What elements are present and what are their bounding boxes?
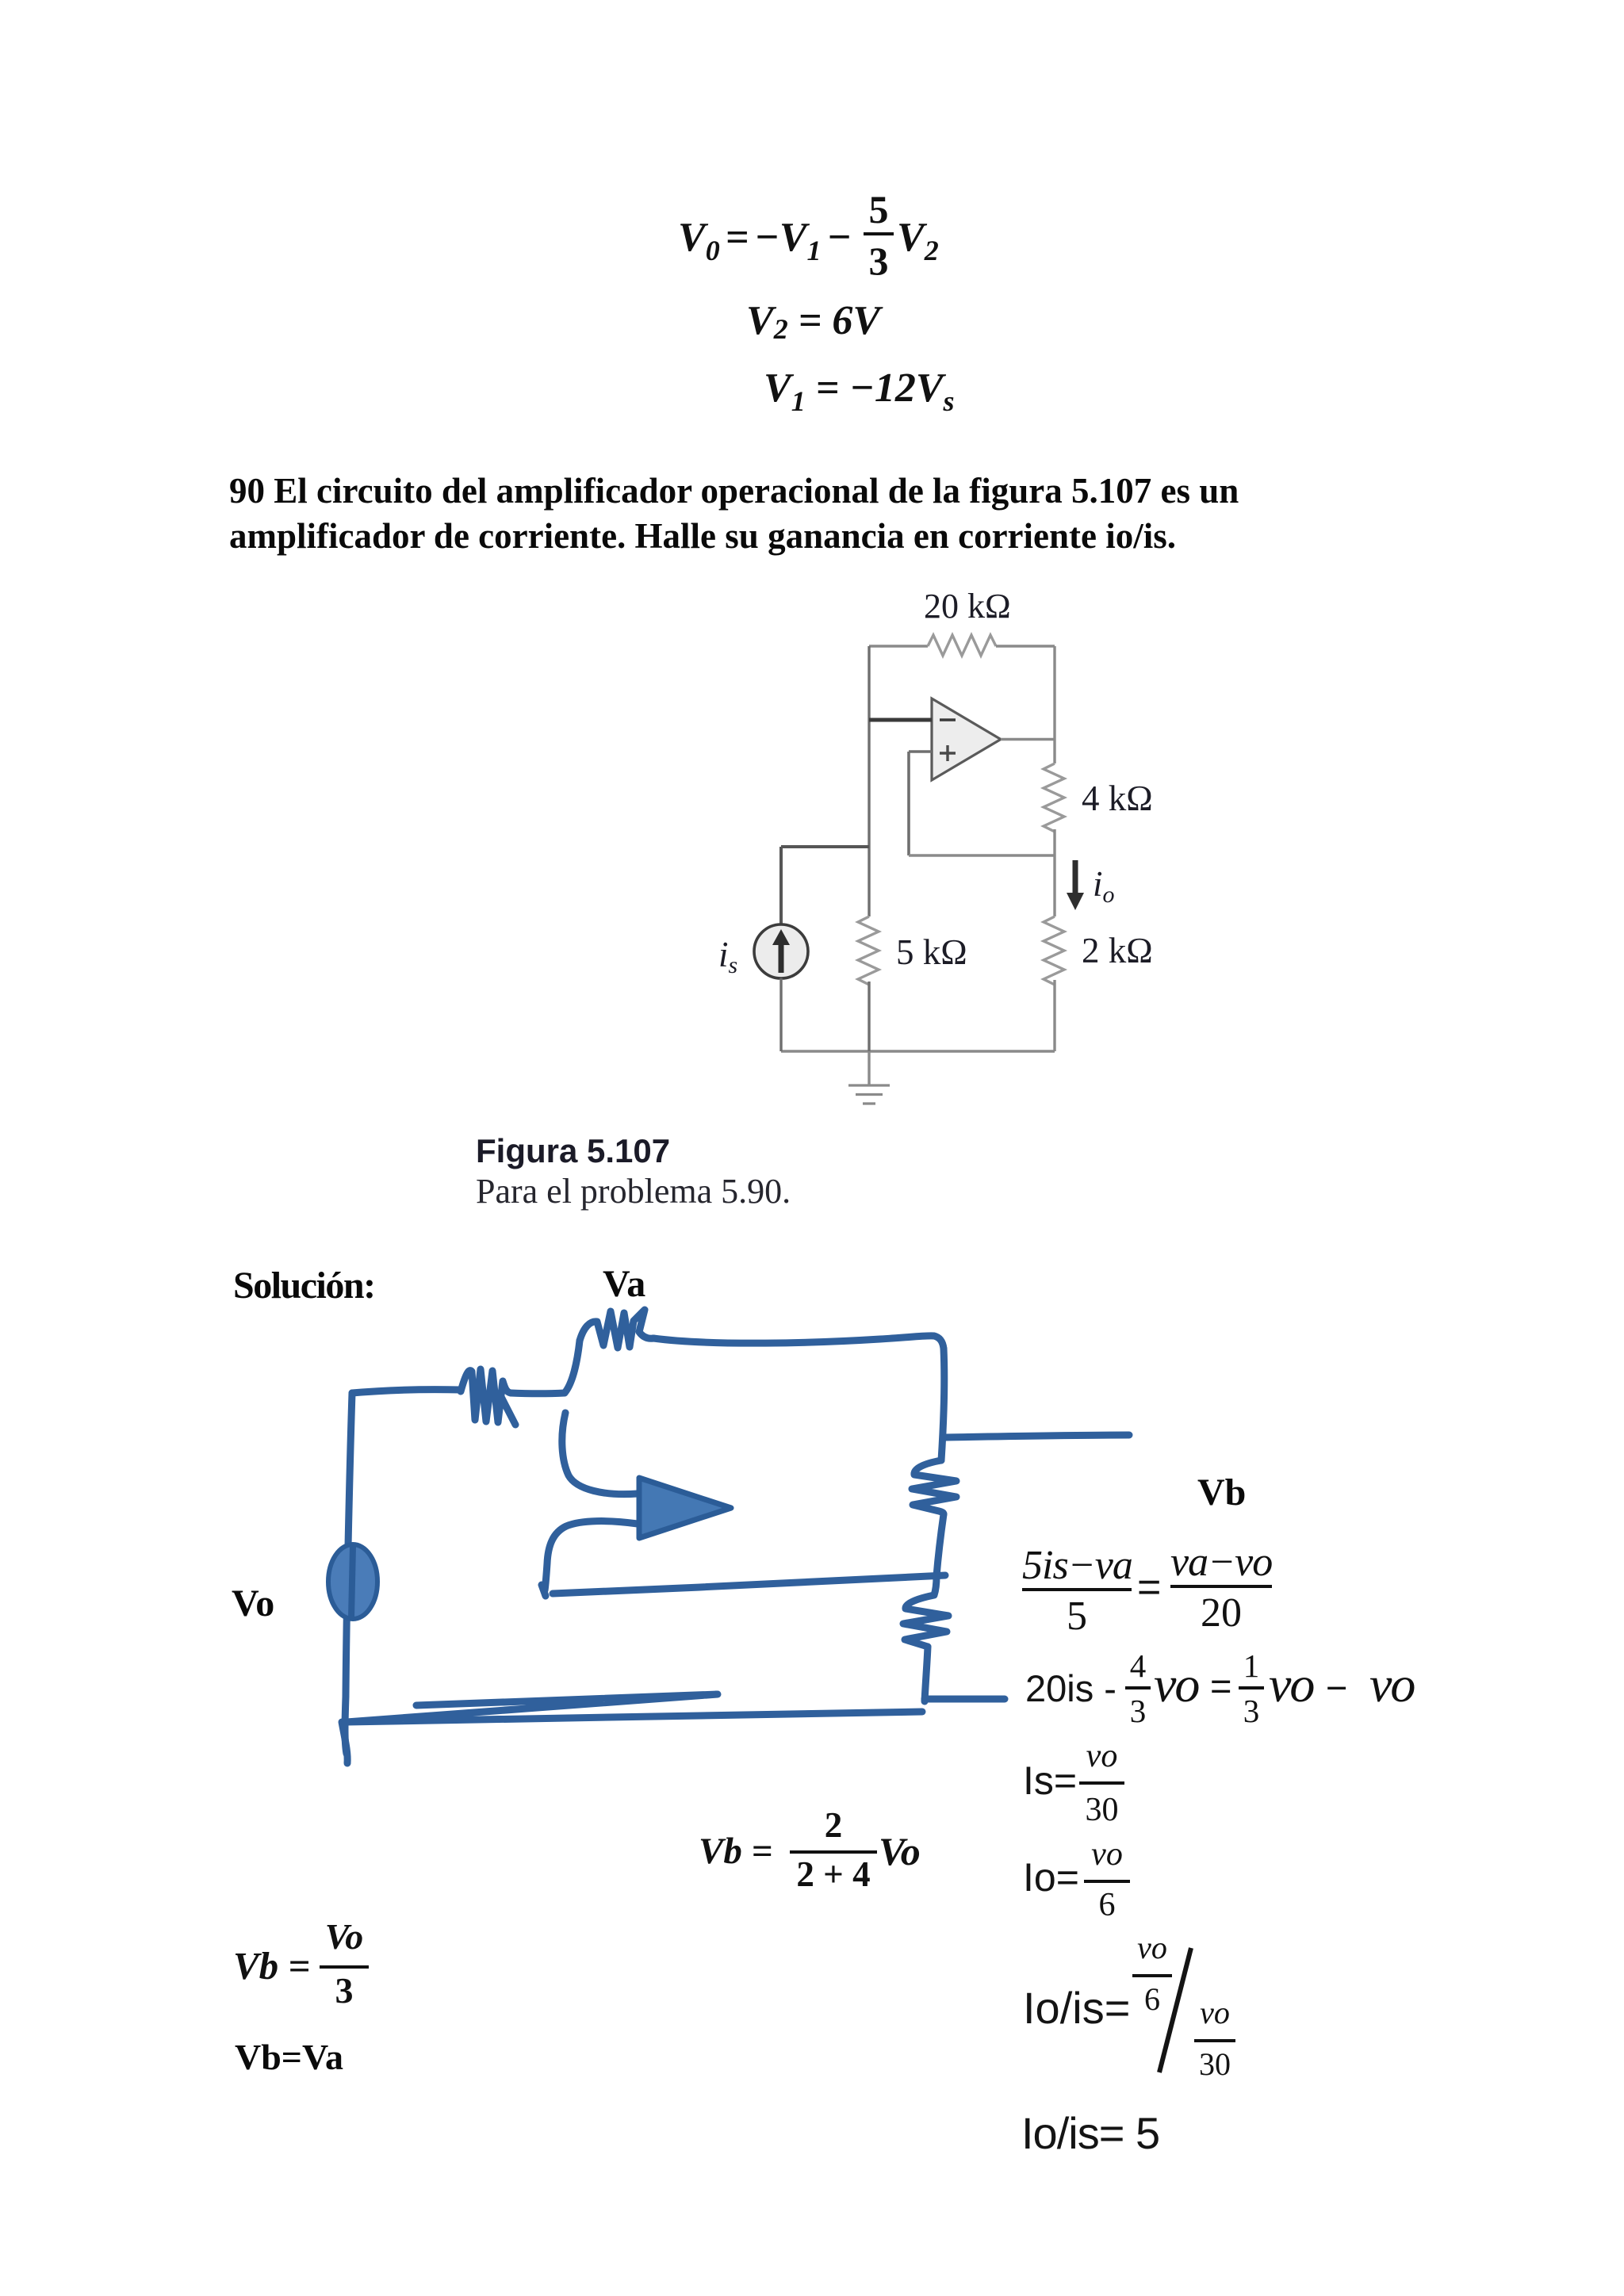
node label Va	[603, 1262, 645, 1306]
wire right vertical bottom	[1053, 980, 1055, 1051]
resistor sketch 5k scribble	[461, 1369, 515, 1425]
wire sketch right vertical middle	[936, 1514, 944, 1576]
eq 20is - 4/3 vo = 1/3 vo - vo	[1025, 1667, 1116, 1710]
wire top from left vertical to 20k	[869, 645, 928, 647]
resistor R1 20k zigzag	[928, 635, 996, 656]
resistor R2 4k zigzag	[1044, 763, 1064, 832]
resistor R3 2k zigzag	[1044, 916, 1064, 985]
wire sketch left bottom hook	[342, 1722, 347, 1763]
wire op-amp output	[1001, 738, 1055, 740]
wire sketch right vertical lower	[925, 1647, 928, 1701]
resistor sketch 20k scribble (Va)	[580, 1310, 653, 1348]
resistor R4 5k zigzag	[858, 916, 879, 985]
op-amp minus pin label	[940, 718, 956, 721]
wire left vertical (inverting feed / 5k top)	[868, 646, 870, 916]
op-amp plus pin label	[940, 745, 956, 761]
eq Io/is = (vo/6)/(vo/30)	[1023, 1982, 1130, 2034]
wire is source top vertical	[779, 847, 783, 924]
wire bottom rail	[781, 1050, 1055, 1052]
wire sketch left vertical	[345, 1393, 352, 1754]
resistor sketch 4k scribble	[912, 1460, 956, 1514]
eq Vb = 2/(2+4) Vo	[699, 1830, 772, 1873]
wire sketch bottom right stub	[925, 1696, 1005, 1703]
wire sketch top long	[653, 1336, 944, 1349]
wire inverting input stub	[869, 718, 932, 722]
ground stem	[868, 1051, 870, 1085]
wire sketch right vertical upper	[941, 1349, 944, 1460]
wire noninverting vertical down	[907, 752, 910, 855]
current source IS arrow	[779, 939, 784, 973]
wire top from 20k to right vertical	[996, 645, 1055, 647]
wire sketch bottom scribble rail	[347, 1694, 922, 1722]
wire node B segment	[1053, 829, 1055, 916]
wire sketch middle	[511, 1390, 565, 1398]
current io arrow	[1073, 860, 1078, 897]
eq Io/is = 5	[1021, 2107, 1159, 2159]
op-amp U1 body	[932, 698, 1001, 780]
big slash of Io/is fraction	[1159, 1948, 1191, 2072]
current source IS circle	[754, 924, 808, 978]
node label Vb	[1197, 1471, 1246, 1514]
wire noninverting to node B horizontal	[909, 854, 1055, 856]
eq Io = vo/6	[1023, 1854, 1079, 1900]
op-amp sketch triangle	[639, 1478, 731, 1538]
wire sketch output	[944, 1435, 1129, 1437]
source Vo ellipse	[328, 1544, 377, 1619]
wire right vertical top (20k to output node)	[1053, 646, 1055, 763]
eq (5is-va)/5 = (va-vo)/20	[1022, 1545, 1132, 1637]
eq Is = vo/30	[1023, 1758, 1077, 1804]
wire noninverting input stub	[909, 750, 932, 753]
wire 5k bottom	[868, 982, 870, 1051]
eq Vb = Vo/3	[233, 1943, 310, 1988]
op-amp sketch noninverting wire	[542, 1521, 638, 1596]
resistor sketch 2k scribble	[903, 1576, 948, 1647]
op-amp sketch inverting wire	[562, 1413, 638, 1494]
ground symbol	[848, 1085, 890, 1104]
wire sketch left horizontal	[352, 1390, 461, 1393]
eq Vb=Va	[235, 2036, 343, 2078]
wire sketch Vb node long line	[553, 1575, 945, 1594]
node label Vo	[232, 1582, 274, 1625]
wire sketch rise to Va node	[565, 1341, 580, 1393]
wire is source bottom vertical	[779, 978, 782, 1051]
wire is branch top horizontal	[781, 845, 869, 848]
